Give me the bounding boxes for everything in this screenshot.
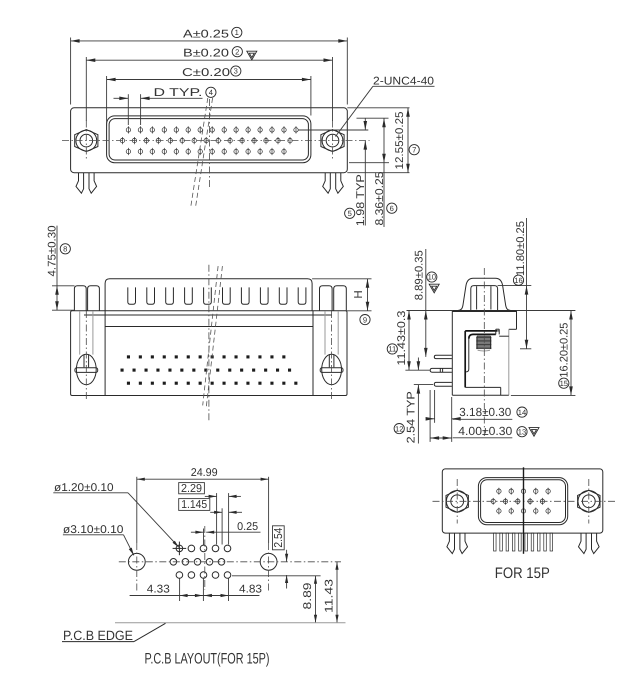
dim 2.54 bbox=[405, 369, 430, 371]
mounting holes bbox=[128, 553, 145, 570]
svg-text:11.80±0.25: 11.80±0.25 bbox=[515, 221, 527, 276]
svg-text:1.98 TYP: 1.98 TYP bbox=[355, 174, 367, 226]
svg-text:16: 16 bbox=[514, 276, 522, 285]
svg-text:7: 7 bbox=[412, 145, 416, 154]
svg-text:D TYP.: D TYP. bbox=[154, 87, 203, 99]
view 1: connector front view bbox=[62, 27, 435, 227]
svg-text:4.33: 4.33 bbox=[147, 584, 170, 596]
right screw end bbox=[322, 354, 342, 384]
bracket lip bbox=[495, 329, 497, 334]
left nut bbox=[446, 490, 468, 512]
threaded insert bbox=[477, 336, 491, 348]
D-shell face outer bbox=[107, 116, 311, 163]
dim 12.55 bbox=[407, 108, 409, 173]
center line bbox=[483, 268, 485, 436]
svg-text:2.54: 2.54 bbox=[273, 527, 285, 548]
dim 8.36 bbox=[383, 118, 385, 227]
body outline bbox=[452, 310, 516, 312]
svg-text:FOR 15P: FOR 15P bbox=[495, 565, 550, 582]
svg-text:2.29: 2.29 bbox=[181, 483, 202, 495]
arrows 2.29 bbox=[205, 495, 217, 497]
svg-text:A±0.25: A±0.25 bbox=[183, 28, 229, 40]
svg-text:3: 3 bbox=[234, 67, 238, 76]
left standoff bbox=[74, 286, 86, 311]
svg-text:8: 8 bbox=[63, 245, 67, 254]
svg-text:8.89: 8.89 bbox=[302, 583, 314, 610]
svg-text:C±0.20: C±0.20 bbox=[182, 67, 230, 79]
box 2.54 bbox=[273, 526, 285, 550]
svg-text:4.00±0.30: 4.00±0.30 bbox=[458, 424, 512, 438]
box 2.29 bbox=[179, 483, 205, 494]
left nut centerline bbox=[85, 121, 87, 162]
centerlines bbox=[119, 561, 341, 563]
svg-text:2-UNC4-40: 2-UNC4-40 bbox=[373, 75, 434, 87]
right standoff bbox=[320, 286, 333, 311]
main vertical centerline bbox=[208, 99, 210, 187]
dim 3.18 bbox=[434, 390, 436, 423]
shell outer bbox=[478, 478, 567, 525]
svg-text:10: 10 bbox=[428, 273, 436, 282]
svg-text:15: 15 bbox=[560, 379, 568, 388]
svg-text:2.54 TYP: 2.54 TYP bbox=[406, 391, 418, 443]
dim B bbox=[85, 57, 87, 121]
svg-text:0.25: 0.25 bbox=[237, 521, 258, 533]
bracket arm bbox=[465, 330, 497, 332]
dim 8.89 bbox=[407, 310, 453, 312]
bottom step bbox=[465, 386, 501, 388]
left legs bbox=[447, 533, 455, 554]
svg-text:16.20±0.25: 16.20±0.25 bbox=[559, 323, 571, 378]
svg-text:12.55±0.25: 12.55±0.25 bbox=[394, 112, 406, 170]
svg-text:P.C.B LAYOUT(FOR 15P): P.C.B LAYOUT(FOR 15P) bbox=[145, 651, 270, 668]
svg-text:8.36±0.25: 8.36±0.25 bbox=[374, 172, 386, 226]
D-shell face inner bbox=[109, 119, 308, 160]
flange outline bbox=[71, 108, 348, 173]
hole rows bbox=[176, 545, 183, 552]
left leg pair bbox=[76, 173, 84, 194]
dim A bbox=[70, 38, 72, 105]
dim 4.00 bbox=[430, 437, 452, 439]
right extension lines bbox=[347, 107, 409, 109]
svg-text:24.99: 24.99 bbox=[191, 467, 218, 479]
svg-text:H: H bbox=[353, 290, 365, 298]
dim H bbox=[312, 278, 371, 280]
svg-text:11.43±0.3: 11.43±0.3 bbox=[396, 311, 408, 366]
svg-text:5: 5 bbox=[348, 209, 352, 218]
dim 11.43 bbox=[408, 311, 410, 371]
svg-text:9: 9 bbox=[363, 315, 367, 324]
right nut centerline bbox=[332, 121, 334, 162]
svg-text:11.43: 11.43 bbox=[323, 579, 335, 613]
svg-text:2: 2 bbox=[235, 47, 239, 56]
horizontal centerline bbox=[62, 140, 370, 142]
svg-text:11: 11 bbox=[388, 345, 396, 354]
dim 24.99 bbox=[136, 477, 138, 543]
svg-text:4: 4 bbox=[209, 88, 213, 97]
left jack screw nut bbox=[75, 130, 98, 152]
view 3: side section bbox=[387, 218, 575, 444]
svg-text:13: 13 bbox=[518, 427, 526, 436]
view 4: 15P front view bbox=[433, 467, 617, 582]
body inner lines bbox=[84, 314, 332, 316]
left screw end bbox=[76, 354, 96, 384]
pins 15 bbox=[497, 489, 501, 493]
centerlines bbox=[85, 311, 87, 401]
break lines bbox=[203, 266, 218, 405]
shell inner bbox=[481, 480, 566, 523]
svg-text:4.75±0.30: 4.75±0.30 bbox=[47, 226, 59, 277]
shell tab inner bbox=[471, 286, 498, 311]
dim C bbox=[106, 76, 108, 126]
flange bbox=[442, 469, 603, 533]
dim 8.89 bbox=[232, 575, 321, 577]
view 2: connector top view bbox=[47, 226, 372, 423]
svg-text:6: 6 bbox=[390, 204, 394, 213]
dim 11.43 bbox=[336, 562, 338, 623]
pins: middle row bbox=[120, 138, 124, 142]
right jack screw nut bbox=[321, 130, 344, 152]
dim 4.75 bbox=[52, 285, 75, 287]
pcb pins row bbox=[494, 533, 497, 551]
pcb edge bbox=[115, 622, 346, 624]
svg-text:14: 14 bbox=[518, 408, 526, 417]
dim 2.54 arrows bbox=[286, 550, 288, 562]
first hole crosshair bbox=[173, 547, 187, 549]
svg-text:4.83: 4.83 bbox=[239, 584, 262, 596]
svg-text:1.145: 1.145 bbox=[181, 499, 207, 511]
dim 4.33 / 4.83 bbox=[179, 579, 181, 602]
arrows 1.145 bbox=[210, 511, 222, 513]
pin squares bbox=[127, 355, 130, 358]
dim 0.25 bbox=[191, 531, 204, 533]
right nut bbox=[578, 490, 600, 512]
break lines bbox=[191, 98, 208, 209]
shell slots bbox=[128, 287, 136, 304]
shell top bbox=[105, 279, 312, 311]
pins: bottom row bbox=[126, 149, 130, 153]
centerlines bbox=[433, 500, 617, 502]
left pins bbox=[434, 355, 452, 358]
right leg pair bbox=[323, 173, 331, 194]
svg-text:3.18±0.30: 3.18±0.30 bbox=[459, 405, 511, 419]
svg-text:12: 12 bbox=[395, 424, 403, 433]
dim 11.80 bbox=[498, 285, 532, 287]
dim 1.98 TYP bbox=[364, 118, 366, 130]
svg-text:P.C.B EDGE: P.C.B EDGE bbox=[63, 628, 133, 643]
dim 16.20 bbox=[517, 310, 576, 312]
dim D bbox=[127, 94, 129, 125]
pins: top row bbox=[126, 128, 130, 132]
svg-text:1: 1 bbox=[235, 28, 239, 37]
view 5: pcb layout bbox=[53, 467, 345, 668]
svg-text:B±0.20: B±0.20 bbox=[183, 48, 229, 60]
right legs bbox=[579, 533, 587, 554]
svg-text:8.89±0.35: 8.89±0.35 bbox=[413, 250, 425, 300]
box 1.145 bbox=[179, 499, 210, 511]
bracket leg bbox=[464, 331, 466, 388]
shell tab outer bbox=[458, 278, 510, 310]
body outline bbox=[71, 311, 347, 396]
column ref lines bbox=[216, 493, 218, 544]
screw shafts hidden bbox=[79, 311, 81, 355]
